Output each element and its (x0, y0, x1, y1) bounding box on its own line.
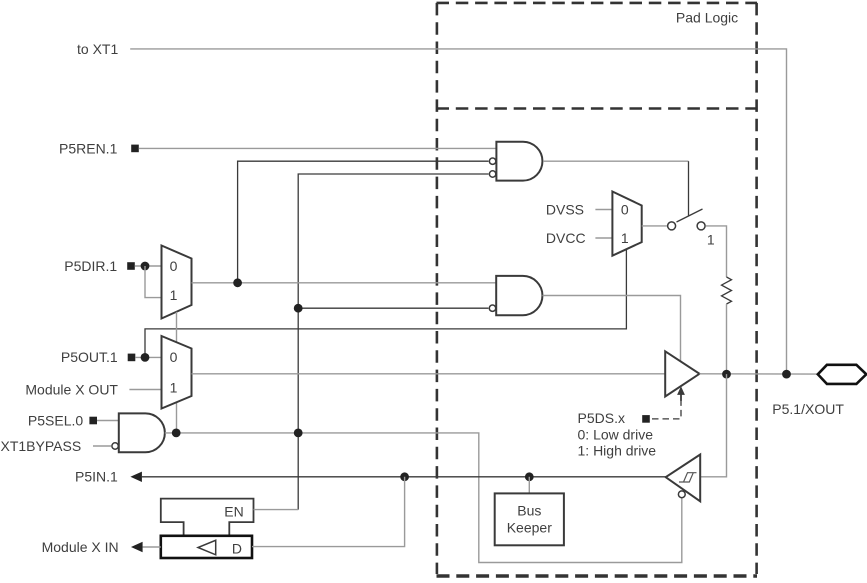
wire Module X OUT (129, 389, 161, 391)
D latch triangle (198, 540, 216, 555)
svg-text:Module X IN: Module X IN (42, 539, 119, 555)
EN latch enable block (161, 499, 254, 536)
mux M3 DVSS/DVCC (612, 192, 641, 256)
switch S1 (668, 209, 706, 230)
and gate U2 (489, 276, 542, 315)
bubble U5 enable (678, 491, 685, 498)
mux M2 P5OUT (162, 336, 192, 409)
wire M3 output (642, 225, 667, 227)
input marker P5DIR.1 (127, 262, 135, 270)
wire EN to P5SEL net (254, 509, 299, 511)
wire P5OUT.1 (135, 356, 161, 358)
wire select below mux M2 (176, 402, 178, 433)
svg-text:P5DS.x: P5DS.x (578, 410, 625, 426)
junction P5IN to D latch (400, 472, 409, 481)
Pad Logic dashed divider (437, 107, 758, 110)
bubble U1 pin 2 (489, 158, 495, 164)
nand gate U1 (489, 142, 542, 181)
wire XT1BYPASS (93, 445, 111, 447)
svg-text:Bus: Bus (517, 503, 541, 519)
junction P5SEL a (172, 429, 181, 438)
D latch block (161, 536, 252, 558)
wire P5IN (142, 476, 666, 478)
wire switch control (688, 161, 690, 215)
svg-text:1: 1 (170, 379, 178, 395)
wire output node (700, 373, 818, 375)
arrow Module X IN (131, 542, 143, 552)
driver buffer U4 (665, 351, 699, 396)
wire bus keeper stub (528, 477, 530, 494)
bus keeper box (495, 493, 564, 545)
wire M1 output (192, 282, 497, 284)
svg-text:P5SEL.0: P5SEL.0 (28, 413, 83, 429)
wire M3 select from P5OUT (145, 249, 626, 357)
wire U1 output (543, 160, 689, 162)
svg-text:0: 0 (170, 349, 178, 365)
input marker P5SEL.0 (89, 417, 97, 425)
junction M1 output (233, 278, 242, 287)
schmitt trigger U5 (666, 455, 701, 502)
wire P5DIR to mux input 1 (145, 266, 162, 298)
input marker P5OUT.1 (128, 354, 136, 362)
svg-text:1: 1 (170, 287, 178, 303)
junction U2 input2 (294, 304, 303, 313)
wire M2 output to driver (192, 373, 666, 375)
wire U2 output (542, 296, 680, 362)
dashed wire P5DS (652, 400, 681, 419)
wire U2 input2 (298, 307, 488, 309)
resistor R1 (722, 277, 732, 304)
wire resistor to node (726, 304, 728, 374)
svg-text:P5IN.1: P5IN.1 (75, 469, 118, 485)
schmitt glyph (679, 473, 697, 482)
bubble U2 pin 2 (489, 305, 495, 311)
wire DVCC (595, 237, 612, 239)
input marker P5REN.1 (131, 145, 139, 153)
svg-text:P5REN.1: P5REN.1 (59, 140, 118, 156)
wire to XT1 (130, 49, 786, 374)
wire P5DIR.1 (135, 265, 162, 267)
wire P5SEL.0 (97, 420, 119, 422)
junction P5OUT (141, 353, 150, 362)
wire P5REN.1 (139, 147, 497, 149)
svg-text:1: High drive: 1: High drive (578, 442, 657, 458)
junction P5SEL b (294, 429, 303, 438)
Pad Logic dashed boundary (437, 3, 758, 576)
wire input node to schmitt (700, 374, 726, 477)
svg-text:P5OUT.1: P5OUT.1 (61, 349, 118, 365)
svg-text:Pad Logic: Pad Logic (676, 10, 738, 26)
svg-text:1: 1 (621, 230, 629, 246)
junction P5IN to bus keeper (525, 472, 534, 481)
svg-text:Module X OUT: Module X OUT (25, 381, 118, 397)
wire switch to resistor (706, 226, 727, 277)
arrow P5IN.1 (130, 472, 142, 482)
wire P5SEL net (165, 433, 682, 563)
junction resistor node (722, 370, 731, 379)
P5DS.x annotation (578, 386, 685, 458)
bubble U3 pin 2 (112, 443, 118, 449)
svg-text:EN: EN (224, 504, 243, 520)
svg-text:0: 0 (621, 202, 629, 218)
svg-text:0: Low drive: 0: Low drive (578, 427, 654, 443)
wire D latch feed (252, 477, 405, 547)
svg-text:1: 1 (707, 232, 715, 248)
svg-text:P5DIR.1: P5DIR.1 (64, 258, 117, 274)
and gate U3 P5SEL (112, 413, 165, 452)
svg-text:to XT1: to XT1 (77, 41, 118, 57)
svg-text:DVSS: DVSS (546, 201, 584, 217)
junction XT1 node (782, 370, 791, 379)
svg-text:P5.1/XOUT: P5.1/XOUT (772, 401, 844, 417)
junction P5DIR (141, 262, 150, 271)
wire Module X IN (143, 546, 161, 548)
mux M1 P5DIR (162, 246, 192, 319)
svg-text:DVCC: DVCC (546, 230, 586, 246)
svg-text:Keeper: Keeper (507, 519, 552, 535)
svg-text:0: 0 (170, 258, 178, 274)
input marker P5DS.x (642, 415, 650, 423)
svg-text:XT1BYPASS: XT1BYPASS (1, 438, 82, 454)
svg-text:D: D (232, 541, 242, 557)
pad P5.1/XOUT (818, 365, 867, 384)
wire select between muxes (176, 312, 178, 343)
arrowhead P5DS (680, 394, 682, 401)
bubble U1 pin 3 (489, 171, 495, 177)
wire DVSS (595, 209, 612, 211)
wire U1 input2 from DIR mux output (238, 161, 489, 283)
wire U1 input3 from P5SEL net (298, 174, 488, 510)
